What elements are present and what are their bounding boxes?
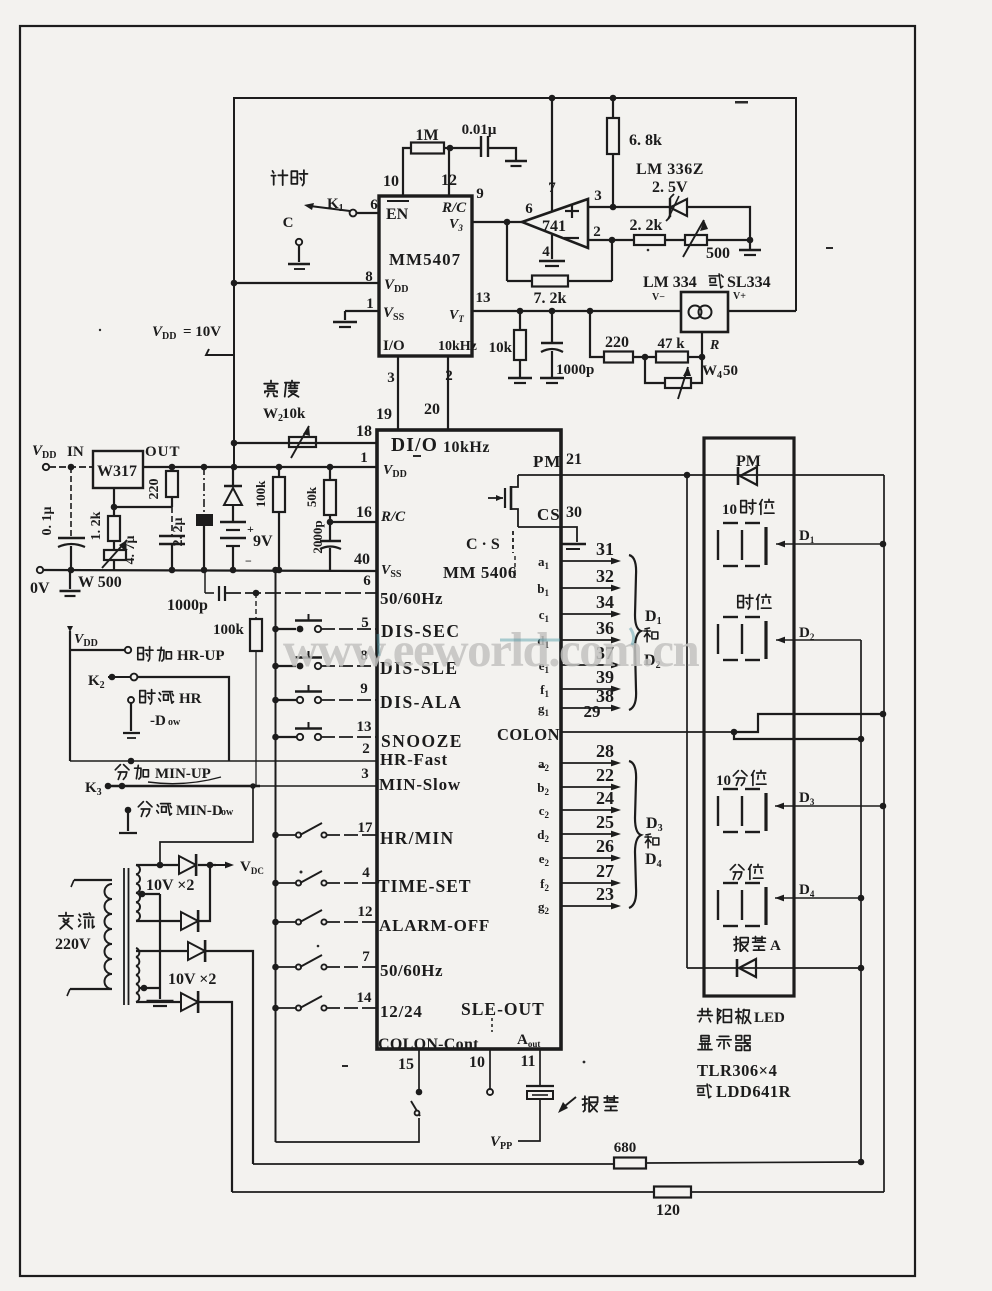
node rail 220 [169, 464, 176, 471]
wire display right bus D2/D4 column [860, 640, 862, 1164]
op-amp 741 triangle [522, 199, 588, 248]
transformer core [123, 868, 125, 1005]
svg-text:680: 680 [614, 1140, 637, 1156]
wire MM5407 pin3 to MM5406 pin19 [397, 356, 399, 429]
svg-text:10V ×2: 10V ×2 [168, 971, 216, 988]
svg-text:www.eeworld.com.cn: www.eeworld.com.cn [283, 622, 700, 677]
svg-text:HR/MIN: HR/MIN [380, 828, 454, 848]
wire D1 select [776, 543, 883, 545]
resistor 6.8k [612, 98, 614, 118]
svg-text:0.01μ: 0.01μ [462, 122, 497, 138]
svg-text:10k: 10k [282, 406, 306, 422]
7-segment digit D2 sketch [723, 616, 738, 618]
resistor 10k [519, 311, 521, 330]
svg-text:W 500: W 500 [78, 574, 122, 591]
potentiometer W4 50 loop [645, 357, 665, 383]
svg-text:40: 40 [354, 551, 370, 568]
wire segment output a2 pin 28 [561, 762, 614, 764]
svg-text:741: 741 [542, 218, 566, 235]
wire cap to ground [488, 148, 516, 160]
wire secondary1 bottom terminal [136, 920, 181, 922]
wire secondary2 top terminal [136, 950, 188, 952]
svg-text:29: 29 [584, 702, 601, 721]
node top border junction 6.8k [610, 95, 617, 102]
wire VSS pin1 to ground [345, 310, 379, 312]
svg-text:21: 21 [566, 451, 582, 468]
ground cap 0.01u [505, 160, 527, 163]
wire inner supply boundary top [234, 97, 796, 99]
wire D4 select [775, 897, 861, 899]
wire segment output g1 pin 38 [561, 707, 614, 709]
svg-text:6: 6 [525, 201, 533, 217]
wire segment output c2 pin 24 [561, 809, 614, 811]
svg-text:HR-UP: HR-UP [177, 648, 225, 664]
capacitor 0.1u [70, 467, 72, 537]
wire MM5407 pin2 to MM5406 pin20 [447, 356, 449, 429]
wire segment output f2 pin 27 [561, 882, 614, 884]
7-segment digit D3 sketch [723, 788, 738, 790]
node VT 10k [517, 308, 524, 315]
wire D6 up to VDC [199, 865, 210, 921]
svg-text:32: 32 [596, 566, 614, 586]
wire zener to right corner [687, 207, 750, 240]
dashed link C-S [512, 531, 514, 553]
svg-text:12/24: 12/24 [380, 1002, 423, 1021]
svg-text:DIS-ALA: DIS-ALA [380, 692, 462, 712]
resistor 100k (keys pullup) [255, 593, 257, 619]
node 0V 2.2u [201, 567, 208, 574]
wire centre tap down [159, 894, 161, 988]
svg-text:500: 500 [706, 245, 730, 262]
contact HR-down circle and stub [128, 697, 134, 703]
svg-text:10kHz: 10kHz [443, 439, 490, 456]
node 100k-dash junction [253, 590, 260, 597]
label fenwei (minutes) [730, 865, 744, 880]
wire D3 select [775, 805, 883, 807]
wire segment output d1 pin 36 [561, 639, 614, 641]
switch K1 blade [310, 206, 350, 211]
node 680 bus junction [858, 1159, 865, 1166]
node colon upper bus [880, 711, 887, 718]
label fenjia MIN-UP [115, 765, 129, 780]
node K3 a [105, 783, 112, 790]
wire op-amp pin4 to ground [551, 235, 553, 259]
svg-text:−: − [245, 554, 252, 568]
svg-text:15: 15 [398, 1056, 414, 1073]
svg-text:LM 336Z: LM 336Z [636, 161, 704, 178]
svg-text:HR-Fast: HR-Fast [380, 750, 448, 769]
svg-text:3: 3 [594, 188, 602, 204]
label common anode LED line1 [698, 1009, 713, 1022]
capacitor 1000p (VT) [551, 311, 553, 342]
node K3 b [119, 783, 126, 790]
transformer primary winding [105, 884, 113, 989]
wire segment output f1 pin 39 [561, 688, 614, 690]
wire 120 to bus [691, 1191, 884, 1193]
wire MIN-Dow to transformer tap [160, 786, 253, 865]
ground zener node [749, 240, 751, 249]
svg-text:0V: 0V [30, 580, 50, 597]
contact pin10 open circle [487, 1089, 493, 1095]
svg-text:MIN-Slow: MIN-Slow [379, 775, 461, 794]
node HR-Fast left [128, 758, 135, 765]
contact C circle and ground [296, 239, 302, 245]
dashed lead pin10 inside [491, 1018, 493, 1032]
svg-text:A: A [770, 938, 781, 954]
wire pin16 row [330, 521, 377, 523]
svg-text:SLE-OUT: SLE-OUT [461, 999, 545, 1019]
wire 220 to 47k [633, 356, 656, 358]
7-segment digit D1 sketch [723, 522, 738, 524]
resistor 220 (regulator) [166, 471, 178, 497]
svg-text:10: 10 [469, 1054, 485, 1071]
ground centre tap [159, 988, 161, 999]
svg-text:9: 9 [360, 681, 368, 697]
transformer secondary winding 2 [136, 948, 139, 1002]
svg-text:6: 6 [363, 573, 371, 589]
svg-text:CS: CS [537, 505, 561, 524]
wire VDD keys vertical [69, 631, 71, 761]
wire VDD to pin 8 [234, 282, 379, 284]
svg-text:I/O: I/O [383, 338, 405, 354]
switch DIS-ALA key (pin9) [272, 697, 279, 704]
rail 0V [37, 567, 43, 573]
ground op-amp pin4 [539, 260, 565, 263]
switch SNOOZE key (pin13) [272, 734, 279, 741]
svg-text:MM 5406: MM 5406 [443, 563, 517, 582]
svg-text:220: 220 [147, 479, 162, 500]
wire CS pin30 to ground [518, 527, 577, 542]
node adj junction [111, 504, 118, 511]
wire colon jog upper [734, 714, 883, 732]
svg-text:V−: V− [652, 292, 665, 303]
transformer primary leads [74, 879, 112, 881]
svg-text:C: C [283, 215, 294, 231]
svg-text:2. 2μ: 2. 2μ [171, 517, 186, 546]
resistor 7.2k [532, 276, 568, 287]
svg-text:27: 27 [596, 861, 614, 881]
svg-text:COLON: COLON [497, 725, 560, 744]
node plus input 6.8k junction [610, 204, 617, 211]
label shijian HR [140, 690, 155, 704]
switch 12/24 select (pin14) [272, 1005, 279, 1012]
wire segment output a1 pin 31 [561, 560, 614, 562]
capacitor 0.01u plates [480, 136, 482, 157]
svg-text:1000p: 1000p [167, 597, 208, 614]
switch TIME-SET (pin4) [272, 880, 279, 887]
wire VT pin13 row [472, 310, 681, 312]
wire HR-UP key [70, 649, 125, 651]
brace D3 D4 group [629, 761, 641, 908]
svg-text:9V: 9V [253, 533, 273, 550]
svg-text:7. 2k: 7. 2k [534, 290, 567, 307]
svg-text:W317: W317 [97, 463, 137, 480]
wire pin12 vertical [448, 148, 450, 196]
switch DIS-SEC key (pin5) [272, 626, 279, 633]
node VDD boundary pin8 [231, 280, 238, 287]
potentiometer 500 [685, 235, 707, 245]
ground 0V rail [69, 571, 71, 589]
wire D7 to bottom loop [206, 951, 253, 1164]
node VDC [207, 862, 214, 869]
node MIN wire junction [250, 783, 256, 789]
wire pot to node [707, 239, 750, 241]
wire switch common bus [275, 570, 277, 1142]
svg-text:4: 4 [362, 865, 370, 881]
svg-text:20: 20 [424, 401, 440, 418]
svg-text:TLR306×4: TLR306×4 [697, 1061, 777, 1080]
node top border junction pin7 [549, 95, 556, 102]
diode rectifier D5 [179, 856, 196, 874]
resistor 2.2k [634, 235, 665, 245]
svg-text:100k: 100k [213, 622, 245, 638]
wire segment output g2 pin 23 [561, 905, 614, 907]
contact HR-UP circle [125, 647, 131, 653]
capacitor 2.2u electrolytic [203, 467, 205, 513]
transformer secondary winding 1 [136, 865, 140, 921]
resistor 680 [614, 1158, 646, 1169]
switch ALARM-OFF (pin12) [272, 919, 279, 926]
svg-text:2000p: 2000p [310, 520, 325, 553]
svg-text:120: 120 [656, 1202, 680, 1219]
svg-text:IN: IN [67, 444, 84, 460]
svg-text:C · S: C · S [466, 536, 500, 553]
svg-text:R/C: R/C [441, 200, 467, 216]
wire display right bus D1/D3 column [883, 475, 885, 1192]
wire feedback from output [506, 222, 508, 281]
wire inner boundary right drop to LM334 [795, 97, 797, 311]
wire LM334 to boundary right [728, 310, 796, 312]
label liangdu (brightness) [264, 381, 278, 397]
diode rectifier D7 [188, 942, 205, 960]
node 50k 2000p [327, 519, 334, 526]
label he (and) 1 [644, 628, 658, 642]
svg-text:6: 6 [370, 197, 378, 213]
wire 2.2k to pot 500 [665, 239, 685, 241]
node 0V battery [230, 567, 237, 574]
regulator W317 box [93, 451, 143, 488]
wire colon lower [734, 734, 861, 739]
svg-text:50/60Hz: 50/60Hz [380, 961, 443, 980]
op-amp plus sign [565, 210, 579, 212]
svg-text:17: 17 [358, 820, 374, 836]
svg-text:MM5407: MM5407 [389, 250, 461, 269]
svg-text:3: 3 [387, 370, 395, 386]
svg-text:22: 22 [596, 765, 614, 785]
svg-text:1M: 1M [415, 127, 438, 144]
svg-text:1: 1 [360, 450, 368, 466]
wire segment output e2 pin 26 [561, 857, 614, 859]
IC LM334 current source box [681, 292, 728, 332]
svg-text:50: 50 [723, 363, 738, 379]
svg-text:ow: ow [168, 717, 181, 728]
label jishi (timing) [271, 170, 287, 185]
wire alarm LED row [687, 967, 861, 969]
node 100k 0V [276, 567, 283, 574]
svg-text:13: 13 [476, 290, 491, 306]
ground 10k [508, 377, 532, 380]
wire PM pin21 row [518, 474, 884, 476]
svg-text:DI/O: DI/O [391, 435, 438, 456]
LED PM diode [740, 467, 757, 485]
node boundary pot junction [231, 440, 238, 447]
node VT 1000p [549, 308, 556, 315]
node zener 500 junction [747, 237, 754, 244]
svg-text:4: 4 [542, 244, 550, 260]
node input junction [68, 464, 75, 471]
op-amp minus sign [564, 237, 579, 239]
wire R node to LM334 [701, 332, 703, 357]
ground CS [560, 543, 586, 546]
wire brightness pot row pin18 [234, 442, 377, 444]
svg-text:16: 16 [356, 504, 372, 521]
diode 9V battery isolation [232, 467, 234, 487]
battery 9V [220, 521, 246, 524]
svg-text:10V ×2: 10V ×2 [146, 877, 194, 894]
svg-text:MIN-UP: MIN-UP [155, 766, 211, 782]
node pin15 switch [416, 1089, 423, 1096]
switch colon-cont blade [411, 1101, 420, 1116]
svg-text:4. 7μ: 4. 7μ [123, 535, 138, 564]
wire input to W317 [49, 466, 93, 468]
svg-text:1000p: 1000p [556, 362, 594, 378]
node R/C junction [447, 145, 454, 152]
node VT 220 branch [587, 308, 594, 315]
svg-text:7: 7 [362, 949, 370, 965]
svg-text:V+: V+ [733, 291, 746, 302]
svg-text:2: 2 [593, 224, 601, 240]
node minus input feedback junction [609, 237, 616, 244]
resistor 220 (VT row) [604, 352, 633, 363]
svg-text:50/60Hz: 50/60Hz [380, 589, 443, 608]
wire op-amp pin7 supply [551, 98, 553, 212]
node rail 100k [276, 464, 283, 471]
svg-text:MIN-D: MIN-D [176, 803, 223, 819]
wire 220 branch down [590, 311, 604, 357]
svg-text:220: 220 [605, 334, 629, 351]
label baojing A (alarm LED) [734, 937, 748, 952]
svg-text:LED: LED [754, 1010, 785, 1026]
wire segment output c1 pin 34 [561, 613, 614, 615]
svg-text:11: 11 [520, 1053, 535, 1070]
svg-text:31: 31 [596, 539, 614, 559]
svg-text:47 k: 47 k [657, 336, 685, 352]
switch DIS-SLE key (pin8) [272, 663, 279, 670]
node V3 feedback tap [504, 219, 511, 226]
underline MIN-UP [148, 777, 221, 784]
svg-text:28: 28 [596, 741, 614, 761]
svg-text:10: 10 [716, 773, 731, 789]
svg-text:14: 14 [357, 990, 373, 1006]
node 0V 0.1u [68, 567, 75, 574]
wire plus input [588, 206, 670, 208]
node K2 [109, 674, 116, 681]
wire display left vertical [686, 475, 688, 968]
LED display module box [704, 438, 794, 996]
svg-text:EN: EN [386, 206, 409, 223]
wire K1 to EN pin6 [356, 212, 379, 214]
label display device line2 [698, 1036, 712, 1050]
svg-text:220V: 220V [55, 936, 91, 953]
wire 47k to R node [688, 356, 702, 358]
svg-text:TIME-SET: TIME-SET [378, 876, 472, 896]
wire pin15 switch to bus loop [276, 1118, 420, 1142]
wire segment output b2 pin 22 [561, 786, 614, 788]
svg-text:25: 25 [596, 812, 614, 832]
wire minus input [588, 239, 634, 241]
arrow VDD rail pointer [206, 349, 234, 355]
switch 50/60Hz select (pin7) [272, 964, 279, 971]
wire D5 to VDC node [198, 864, 216, 866]
svg-text:= 10V: = 10V [183, 324, 221, 340]
arrow VDC [210, 864, 226, 866]
wire secondary1 centre tap [140, 893, 160, 895]
node PM left vertical junction [684, 472, 691, 479]
wire inner supply boundary left (VDD rail drop) [233, 97, 235, 468]
node D1 bus [880, 541, 887, 548]
wire V3 output to op-amp [472, 221, 522, 223]
svg-text:24: 24 [596, 788, 614, 808]
svg-text:COLON-Cont: COLON-Cont [378, 1036, 479, 1053]
7-segment digit D4 sketch [723, 882, 738, 884]
node 0V switch bus [272, 567, 279, 574]
label he (and) 2 [645, 834, 659, 848]
zener diode LM336Z [670, 199, 687, 216]
wire 120 return [232, 1191, 654, 1193]
wire D8 to bottom loop 120 [199, 1002, 232, 1192]
resistor 1M [411, 143, 444, 154]
wire secondary2 bottom terminal [136, 1001, 181, 1003]
LM334 internal circles [689, 306, 702, 319]
ground MM5407 VSS [333, 321, 357, 324]
wire feedback to minus node [568, 280, 612, 282]
svg-text:50k: 50k [304, 486, 319, 507]
node rail 2.2u [201, 464, 208, 471]
svg-text:12: 12 [358, 904, 373, 920]
potentiometer W500 [104, 550, 126, 560]
capacitor 2000p [329, 522, 331, 540]
svg-text:HR: HR [179, 691, 202, 707]
brace D1 D2 group [629, 555, 641, 710]
wire pin6 50-60Hz row with 1000p cap [204, 570, 206, 593]
node 47k R junction [699, 354, 706, 361]
wire segment output b1 pin 32 [561, 587, 614, 589]
wire W317 adj [113, 488, 115, 516]
svg-text:1. 2k: 1. 2k [89, 511, 104, 540]
scan artifact cyan marks [378, 628, 634, 656]
scan speck marks [99, 101, 833, 1067]
svg-text:ow: ow [221, 807, 234, 818]
switch HR/MIN (pin17) [272, 832, 279, 839]
svg-text:OUT: OUT [145, 444, 181, 460]
svg-text:18: 18 [356, 423, 372, 440]
wire segment output e1 pin 37 [561, 664, 614, 666]
wire buzzer to VPP [518, 1099, 540, 1141]
wire D2 select [776, 639, 861, 641]
node colon lower bus [858, 736, 865, 743]
svg-text:9: 9 [476, 186, 484, 202]
potentiometer W2 brightness [289, 437, 316, 447]
svg-text:10: 10 [383, 173, 399, 190]
diode rectifier D8 [181, 993, 198, 1011]
svg-text:-D: -D [150, 713, 166, 729]
wire MIN-Slow row (pin3) [105, 785, 260, 787]
label shiwei (hours) [738, 595, 753, 609]
wire 680 return [253, 1163, 614, 1165]
resistor 50k [329, 467, 331, 480]
mosfet display driver [488, 497, 503, 499]
node alarm bus [858, 965, 865, 972]
